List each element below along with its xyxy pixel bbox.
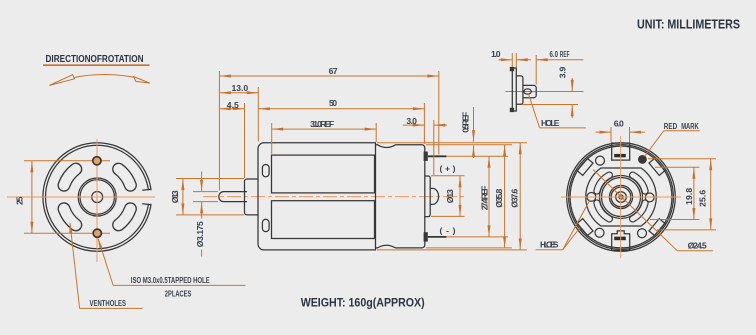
leader tapped hole [96, 237, 102, 249]
ext 25.6 bottom [657, 229, 716, 231]
vent bean UR [119, 169, 131, 185]
underline [43, 64, 150, 66]
shaft hole [92, 192, 103, 203]
dim 3.9 [571, 78, 573, 91]
front inner rim circle [45, 145, 148, 248]
dim 1.0 [499, 59, 513, 61]
dim 6.0 rear [610, 127, 612, 143]
ext 50 right bell face [423, 103, 425, 144]
dim dia13 right [459, 176, 461, 217]
svg-text:VENTHOLES: VENTHOLES [90, 298, 127, 308]
svg-text:67: 67 [329, 66, 338, 76]
shaft [219, 192, 247, 202]
ext dia13 plate top [431, 175, 465, 177]
svg-text:DIRECTIONOFROTATION: DIRECTIONOFROTATION [46, 54, 144, 65]
svg-text:3.0: 3.0 [406, 116, 417, 126]
svg-text:RED: RED [664, 121, 678, 131]
tab [523, 85, 536, 97]
ext 4.5 right collar [244, 103, 246, 178]
rear outer circle [567, 143, 676, 252]
front horizontal centerline [7, 196, 155, 198]
end bell outline [376, 145, 425, 248]
svg-text:27.4 REF: 27.4 REF [479, 186, 489, 211]
svg-text:HOLE: HOLE [541, 118, 560, 128]
ext dia13 plate bottom [431, 215, 465, 217]
leader HLOES 2 [563, 200, 590, 250]
rear vertical centerline [620, 136, 622, 258]
svg-text:Ø13: Ø13 [170, 190, 180, 203]
ext bell bottom [426, 247, 512, 249]
svg-text:HLOES: HLOES [540, 240, 559, 250]
svg-text:ISO M3.0x0.5TAPPED HOLE: ISO M3.0x0.5TAPPED HOLE [131, 275, 210, 285]
hole LR [638, 229, 647, 238]
terminal blade bottom [428, 236, 447, 238]
side centerline [203, 196, 467, 198]
vent bean UL [64, 169, 76, 185]
dim 50 [258, 108, 424, 110]
svg-text:Ø13: Ø13 [445, 189, 455, 203]
crimp tab 320deg [649, 219, 665, 236]
detail centerline [506, 91, 584, 93]
ext 19.8 bottom [650, 219, 700, 221]
svg-text:6.0: 6.0 [614, 118, 624, 128]
plate nub bottom [510, 108, 514, 112]
terminal bar top [614, 154, 626, 157]
collar bushing [245, 179, 259, 215]
svg-text:UNIT: MILLIMETERS: UNIT: MILLIMETERS [637, 17, 740, 31]
ext 31.0REF right [375, 123, 377, 142]
dim 25 line [31, 161, 33, 233]
ext 13.0 right / can face [257, 87, 259, 142]
leader venthole [68, 221, 72, 233]
svg-text:13.0: 13.0 [232, 83, 249, 93]
leader hole [529, 94, 540, 128]
cap vent bottom [262, 219, 269, 231]
svg-text:19.8: 19.8 [684, 188, 694, 205]
side view dimensions [170, 66, 527, 257]
ext can bottom [377, 249, 527, 251]
bearing circles [600, 176, 643, 219]
terminal housing top [612, 143, 630, 160]
ext terminal top [447, 155, 509, 157]
rear arc slot UR [633, 175, 646, 191]
tapped hole bottom crosshair [24, 232, 110, 234]
hole L [587, 193, 596, 202]
dim 6.0 REF [516, 59, 531, 61]
tab hole [524, 89, 531, 94]
terminal housing bottom [612, 231, 630, 251]
ext terminal bottom [447, 236, 509, 238]
bracket [516, 76, 523, 104]
rim notch at 3 o'clock [142, 189, 153, 205]
ext 3.9 bottom [522, 104, 578, 106]
front outer circle [43, 143, 152, 252]
dim dia3.175 [201, 172, 203, 192]
dim dia37.6 [519, 143, 521, 250]
svg-text:4.5: 4.5 [227, 100, 239, 110]
motor can [258, 143, 376, 250]
svg-text:WEIGHT: 160g(APPROX): WEIGHT: 160g(APPROX) [301, 295, 425, 309]
tapped hole top crosshair [24, 160, 110, 162]
dim 19.8 [693, 167, 695, 219]
rear arc slot LR [633, 203, 646, 219]
red mark leader [645, 131, 664, 157]
red mark dot [638, 155, 647, 164]
dim 0.5REF [473, 107, 475, 142]
svg-text:3.9: 3.9 [557, 66, 567, 78]
hole LL [595, 228, 604, 237]
ext shaft tip [218, 71, 220, 191]
dim 13.0 [219, 92, 258, 94]
svg-text:1.0: 1.0 [491, 49, 501, 59]
ext plate left [511, 53, 513, 67]
dim 25.6 [710, 159, 712, 230]
dim dia35.8 [504, 145, 506, 248]
front vertical centerline [96, 139, 98, 262]
terminal clip bottom [424, 232, 428, 241]
svg-text:MARK: MARK [681, 121, 699, 131]
plate nub top [510, 67, 514, 71]
svg-text:50: 50 [329, 98, 337, 108]
ext bell top [426, 144, 512, 146]
ext plate right [515, 53, 517, 67]
svg-text:Ø37.6: Ø37.6 [510, 188, 520, 207]
svg-text:25: 25 [15, 196, 25, 205]
svg-text:Ø24.5: Ø24.5 [688, 241, 707, 251]
terminal plate [512, 68, 516, 111]
leader HLOES 1 [563, 228, 580, 250]
terminal clip top [424, 152, 428, 161]
ext 25.6 top [648, 158, 716, 160]
bearing plate [586, 168, 657, 226]
ext shaft top left [193, 191, 218, 193]
crimp tab 40deg [649, 158, 665, 175]
hole UL [596, 156, 605, 165]
rear inner rim circle [570, 146, 672, 248]
dim 3.0 [403, 124, 424, 126]
dim dia13 left [182, 179, 184, 215]
dim 27.4 REF [488, 156, 490, 237]
svg-text:( - ): ( - ) [440, 225, 456, 235]
ext collar top left [176, 178, 244, 180]
magnet section bottom [272, 201, 375, 239]
ext 31.0REF left [271, 123, 273, 154]
magnet section top [272, 155, 375, 193]
ext can top [377, 142, 527, 144]
terminal bar bottom [614, 237, 626, 241]
svg-text:Ø3.175: Ø3.175 [195, 221, 205, 247]
svg-text:0.5REF: 0.5REF [461, 112, 471, 133]
svg-text:Ø35.8: Ø35.8 [494, 188, 504, 207]
svg-text:31.0REF: 31.0REF [310, 119, 334, 129]
svg-text:2PLACES: 2PLACES [165, 288, 192, 298]
svg-text:( + ): ( + ) [440, 163, 456, 173]
crimp tab 140deg [577, 158, 593, 175]
dim 4.5 [219, 108, 244, 110]
rear diagonal centerline and dia24.5 leader [593, 170, 677, 251]
ext 19.8 top [655, 166, 700, 168]
svg-text:REF: REF [560, 49, 570, 59]
dim 31.0REF [272, 128, 377, 130]
ext 67 right [438, 71, 440, 155]
hole R [645, 193, 654, 202]
svg-text:6.0: 6.0 [550, 49, 559, 59]
rear arc slot UL [597, 175, 610, 191]
ext tab tip [535, 55, 537, 85]
brush plate [425, 176, 430, 217]
crimp tab 220deg [577, 219, 593, 236]
rotation arc arrow [74, 75, 135, 78]
svg-text:25.6: 25.6 [698, 190, 708, 207]
dim 67 [219, 75, 438, 77]
vent bean LL [64, 209, 76, 225]
center boss circle [78, 178, 116, 216]
rear horizontal centerline [561, 196, 681, 198]
rear arc slot LL [597, 203, 610, 219]
ext shaft bottom left [193, 201, 218, 203]
bearing boss bump [430, 188, 438, 204]
cap vent top [262, 165, 269, 177]
vent bean LR [119, 209, 131, 225]
tapped hole bottom [93, 229, 101, 237]
rear mid rim circle [569, 145, 674, 250]
tapped hole top [93, 157, 101, 165]
terminal blade top [428, 155, 447, 157]
ext collar bottom left [176, 214, 244, 216]
